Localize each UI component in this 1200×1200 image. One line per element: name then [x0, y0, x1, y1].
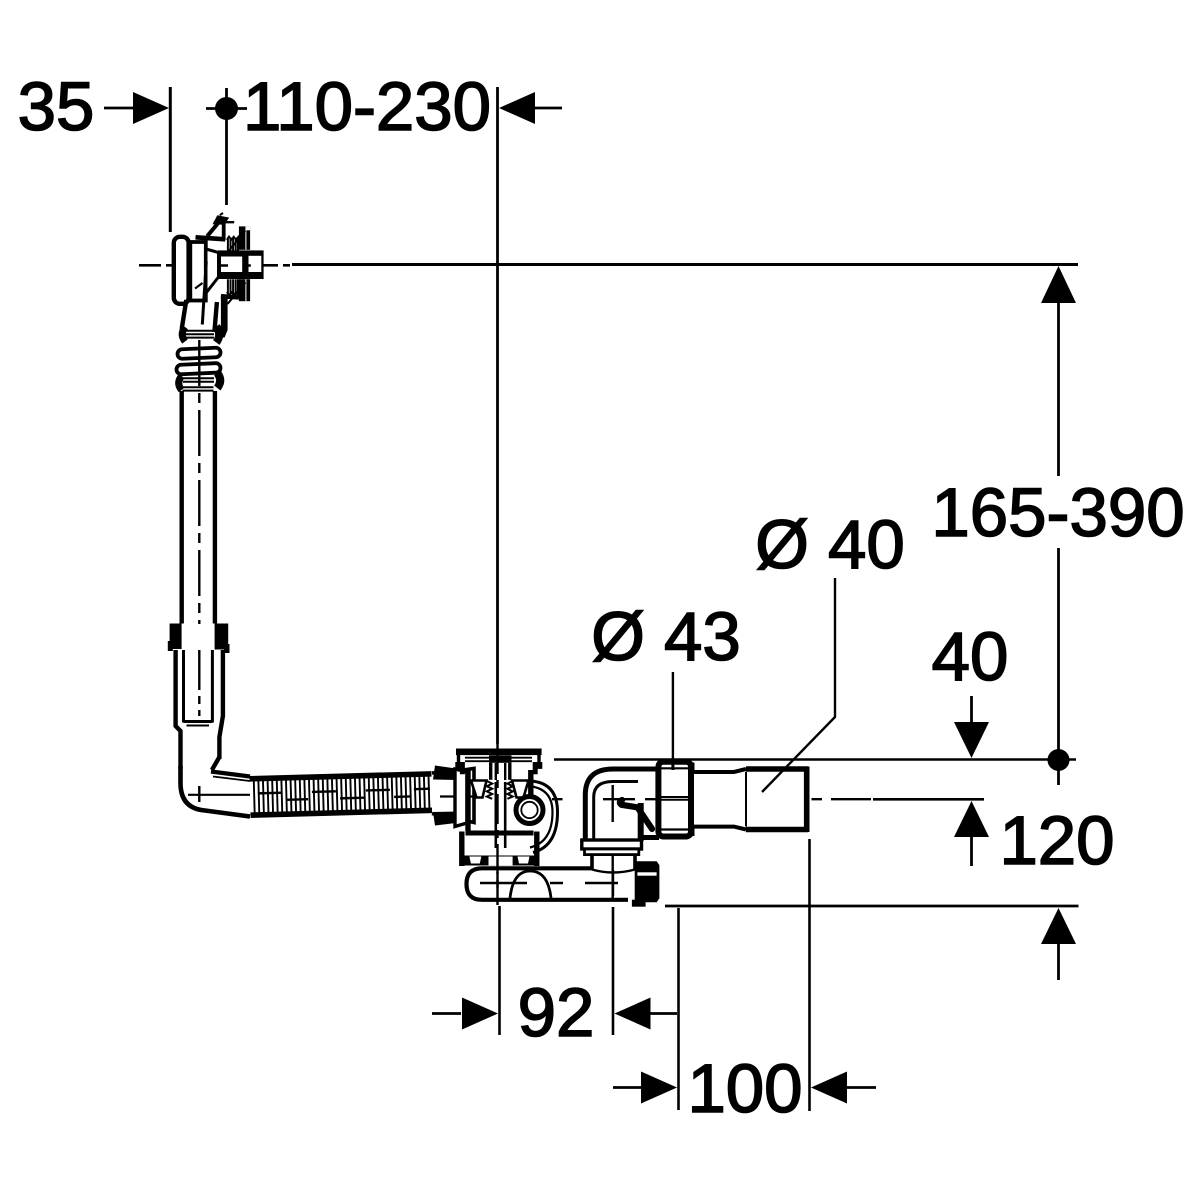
- elbow union rings: [582, 840, 642, 873]
- drain valve cup: [462, 832, 539, 867]
- hose end fitting: [432, 766, 476, 827]
- valve centerline: [496, 744, 498, 905]
- svg-text:35: 35: [18, 68, 95, 145]
- label diameter 40 leader: [762, 578, 835, 792]
- dimension 165-390 lower shaft and dot: [1048, 548, 1070, 785]
- reference line bottom: [665, 905, 1079, 908]
- overflow drop pipe right edge: [214, 302, 217, 332]
- corrugated hose: [250, 774, 433, 815]
- dimension 92 extension right: [612, 907, 615, 1035]
- dimension 110-230 text: [243, 68, 491, 145]
- dimension 120 text: [999, 802, 1114, 879]
- trap pipe centerline: [480, 870, 618, 896]
- elbow inner corner: [211, 757, 250, 781]
- drain valve stem top: [489, 755, 512, 780]
- svg-text:Ø 40: Ø 40: [755, 506, 905, 583]
- overflow thread top: [227, 237, 241, 251]
- outlet union nut: [658, 762, 694, 837]
- elbow centerline: [612, 785, 614, 898]
- collar right block: [215, 624, 230, 654]
- overflow drop pipe left edge: [182, 300, 187, 329]
- dimension 40 text: [932, 618, 1009, 695]
- riser pipe centerline: [198, 340, 200, 624]
- dimension 100 arrows: [613, 1072, 876, 1104]
- dimension 100 text: [687, 1050, 802, 1127]
- drain valve side ball: [516, 797, 543, 824]
- dimension 92 text: [518, 974, 595, 1051]
- corrugation lower bumps: [179, 373, 220, 391]
- label diameter 43 leader: [672, 672, 674, 770]
- svg-text:Ø 43: Ø 43: [591, 598, 741, 675]
- dimension 100 extension right: [808, 839, 811, 1111]
- overflow diagonal hatch top: [227, 231, 245, 253]
- outlet pipe centerline: [552, 798, 871, 800]
- drain valve body walls: [468, 770, 531, 831]
- elbow outer: [181, 766, 251, 817]
- overflow funnel top band: [196, 237, 226, 239]
- overflow cable upper: [207, 220, 221, 237]
- outlet socket: [692, 767, 809, 833]
- drain valve side housing curve: [528, 781, 558, 853]
- trap pipe dome: [510, 871, 551, 898]
- svg-text:92: 92: [518, 974, 595, 1051]
- overflow funnel bottom band: [221, 296, 239, 297]
- reference line outlet level: [554, 758, 1076, 761]
- dimension 120 reference line: [873, 798, 984, 801]
- reference line overflow to 165-390: [292, 263, 1078, 266]
- lower pipe outer walls: [176, 650, 223, 769]
- lower union nut black: [632, 861, 660, 906]
- overflow funnel: [206, 249, 219, 293]
- overflow wall plate: [190, 242, 206, 301]
- overflow cable stem: [222, 222, 226, 241]
- centerline overflow horizontal: [139, 264, 291, 267]
- dimension 92 extension left: [498, 906, 501, 1035]
- bottom arrow up: [1041, 908, 1076, 980]
- drain valve springs: [471, 781, 529, 799]
- elbow centerline cross: [188, 786, 250, 802]
- overflow guide block bottom: [239, 279, 250, 301]
- overflow outlet descender: [221, 297, 228, 338]
- svg-text:100: 100: [687, 1050, 802, 1127]
- overflow guide block top: [239, 226, 250, 249]
- svg-text:40: 40: [932, 618, 1009, 695]
- drain valve flange: [455, 749, 542, 775]
- label diameter 43 text: [591, 598, 741, 675]
- overflow hub: [218, 250, 264, 279]
- riser pipe walls: [182, 391, 215, 624]
- overflow thread bottom: [227, 279, 241, 295]
- svg-text:120: 120: [999, 802, 1114, 879]
- label diameter 40 text: [755, 506, 905, 583]
- overflow cable cap: [213, 213, 235, 225]
- trap lower pipe: [467, 868, 629, 900]
- corrugation ring 1: [177, 348, 220, 359]
- dimension 35 arrow: [104, 92, 169, 124]
- overflow diagonal hatch bottom: [228, 283, 246, 305]
- corrugation ring 2: [176, 363, 220, 374]
- overflow funnel inner diagonal: [195, 283, 203, 289]
- dimension 110-230 dot: [206, 88, 247, 205]
- dimension 40 arrow down: [954, 696, 989, 758]
- svg-text:165-390: 165-390: [931, 474, 1184, 551]
- extension line drain center top: [496, 87, 499, 744]
- dimension 92 arrows: [432, 998, 677, 1030]
- dimension 120 arrow up: [954, 801, 989, 866]
- inner telescoping tube: [184, 650, 213, 726]
- dimension 165-390 arrow up: [1041, 266, 1076, 476]
- overflow rosette: [174, 237, 189, 304]
- dimension 165-390 text: [931, 474, 1184, 551]
- dimension 110-230 arrow: [499, 92, 562, 124]
- dimension 100 extension left: [677, 908, 680, 1110]
- svg-text:110-230: 110-230: [243, 68, 491, 145]
- dimension 35 text: [18, 68, 95, 145]
- collar left block: [168, 624, 182, 652]
- overflow cable lower: [202, 262, 206, 325]
- extension line wall: [169, 87, 172, 232]
- elbow body: [585, 769, 659, 841]
- drain valve stem lower: [496, 782, 505, 848]
- elbow flapper: [620, 800, 652, 829]
- corrugation upper bumps: [182, 327, 219, 343]
- drain valve shoulder: [466, 831, 534, 836]
